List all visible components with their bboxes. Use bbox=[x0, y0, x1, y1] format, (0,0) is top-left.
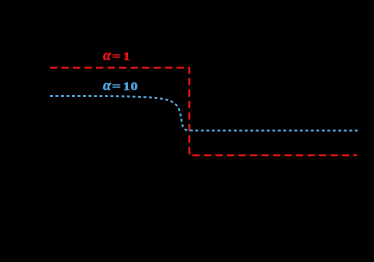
curve alpha=1 (red dashed step) bbox=[50, 68, 357, 156]
curve alpha=10 (blue dotted sigmoid) bbox=[50, 96, 358, 131]
label alpha = 10 (blue) bbox=[103, 77, 136, 95]
label alpha = 1 (red) bbox=[103, 47, 129, 65]
